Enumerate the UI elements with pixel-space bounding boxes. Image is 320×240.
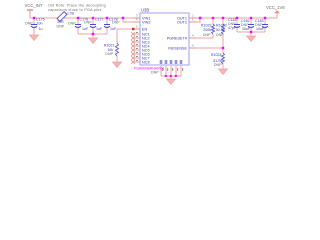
svg-text:R1022: R1022	[201, 23, 212, 27]
svg-text:1uF: 1uF	[96, 27, 103, 31]
svg-text:PGRESET#: PGRESET#	[167, 37, 188, 41]
svg-text:R1021: R1021	[104, 43, 115, 47]
svg-text:L7B: L7B	[68, 12, 75, 16]
svg-text:47pF: 47pF	[228, 26, 237, 30]
svg-text:DNP: DNP	[68, 21, 76, 25]
svg-text:U3B: U3B	[141, 8, 149, 13]
svg-text:PGA900AIRHHRQ1: PGA900AIRHHRQ1	[134, 67, 164, 71]
svg-text:DNP: DNP	[84, 21, 92, 25]
svg-text:DNP: DNP	[57, 24, 65, 28]
svg-text:capacitors close to PGA pins: capacitors close to PGA pins	[48, 8, 102, 12]
svg-text:DNP: DNP	[112, 21, 120, 25]
svg-text:DNP: DNP	[25, 21, 33, 25]
svg-text:10uF: 10uF	[256, 27, 265, 31]
svg-text:DNP: DNP	[105, 52, 113, 56]
svg-text:1uF: 1uF	[110, 27, 117, 31]
svg-text:52.3k: 52.3k	[216, 28, 225, 32]
svg-text:R1023: R1023	[216, 23, 227, 27]
svg-text:VCC_1V8: VCC_1V8	[266, 5, 285, 10]
svg-text:1uF: 1uF	[82, 27, 89, 31]
svg-text:1u: 1u	[39, 27, 43, 31]
svg-text:NC8: NC8	[142, 61, 150, 65]
svg-text:10n: 10n	[37, 21, 43, 25]
svg-text:200k: 200k	[203, 28, 211, 32]
svg-text:C177: C177	[95, 18, 104, 22]
svg-text:10uF: 10uF	[242, 27, 251, 31]
svg-text:DNP: DNP	[151, 71, 159, 75]
svg-text:DNP: DNP	[214, 63, 222, 67]
svg-text:VCC_INT: VCC_INT	[25, 3, 43, 8]
svg-text:Old Note: Place the decoupling: Old Note: Place the decoupling	[48, 3, 106, 7]
svg-text:EN: EN	[142, 28, 148, 32]
svg-text:OUT2: OUT2	[177, 21, 187, 25]
svg-text:DNP: DNP	[203, 33, 211, 37]
svg-text:R1024: R1024	[211, 53, 222, 57]
svg-text:VIN2: VIN2	[142, 21, 150, 25]
svg-text:FB/SENSE: FB/SENSE	[168, 47, 187, 51]
svg-text:DNP: DNP	[216, 33, 224, 37]
